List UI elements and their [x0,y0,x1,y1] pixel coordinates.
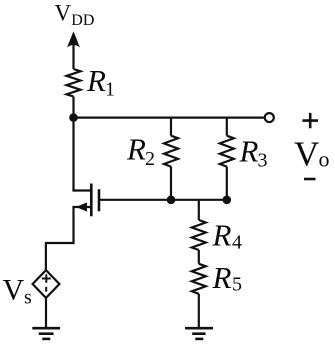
svg-text:5: 5 [232,274,242,296]
svg-text:2: 2 [145,148,155,170]
svg-text:3: 3 [258,150,268,172]
svg-text:V: V [294,135,319,174]
svg-text:DD: DD [71,12,94,29]
svg-text:1: 1 [105,79,115,101]
svg-text:s: s [24,287,32,309]
svg-text:o: o [319,147,330,172]
svg-text:R: R [86,63,106,98]
svg-text:R: R [212,260,232,295]
svg-text:R: R [126,132,146,167]
svg-text:4: 4 [232,232,242,254]
svg-text:R: R [212,218,232,253]
svg-text:V: V [55,0,72,25]
svg-text:V: V [3,273,25,306]
svg-text:R: R [239,133,259,168]
